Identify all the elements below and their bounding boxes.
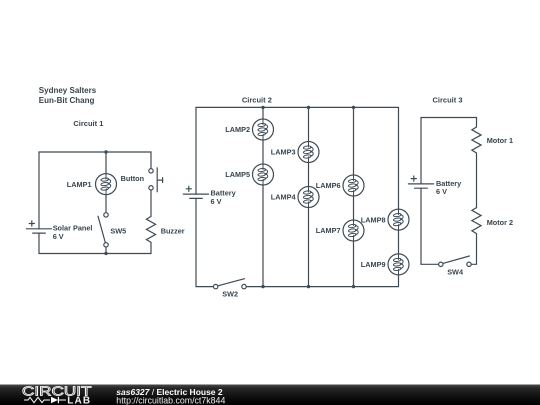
svg-text:Circuit 3: Circuit 3 xyxy=(433,96,463,105)
svg-text:LAMP8: LAMP8 xyxy=(361,215,386,224)
svg-text:LAMP5: LAMP5 xyxy=(225,170,250,179)
svg-text:Buzzer: Buzzer xyxy=(161,226,185,235)
svg-text:SW4: SW4 xyxy=(447,268,464,277)
svg-text:6 V: 6 V xyxy=(211,197,222,206)
svg-text:6 V: 6 V xyxy=(53,232,64,241)
svg-text:SW2: SW2 xyxy=(222,290,238,299)
svg-text:Circuit 2: Circuit 2 xyxy=(242,96,272,105)
svg-text:http://circuitlab.com/ct7k844: http://circuitlab.com/ct7k844 xyxy=(116,396,225,405)
svg-text:Button: Button xyxy=(121,174,145,183)
svg-text:Motor 1: Motor 1 xyxy=(487,136,513,145)
svg-text:LAMP6: LAMP6 xyxy=(316,181,341,190)
svg-text:SW5: SW5 xyxy=(110,227,126,236)
svg-text:Sydney Salters: Sydney Salters xyxy=(39,86,97,95)
svg-text:LAMP9: LAMP9 xyxy=(361,260,386,269)
svg-text:Circuit 1: Circuit 1 xyxy=(73,119,103,128)
svg-text:LAB: LAB xyxy=(67,396,91,405)
svg-text:Motor 2: Motor 2 xyxy=(487,218,513,227)
svg-text:Eun-Bit Chang: Eun-Bit Chang xyxy=(39,96,95,105)
svg-text:LAMP3: LAMP3 xyxy=(271,148,296,157)
svg-text:LAMP7: LAMP7 xyxy=(316,226,341,235)
svg-text:LAMP2: LAMP2 xyxy=(225,125,250,134)
svg-text:LAMP1: LAMP1 xyxy=(67,180,92,189)
svg-text:6 V: 6 V xyxy=(436,187,447,196)
svg-text:LAMP4: LAMP4 xyxy=(271,193,297,202)
